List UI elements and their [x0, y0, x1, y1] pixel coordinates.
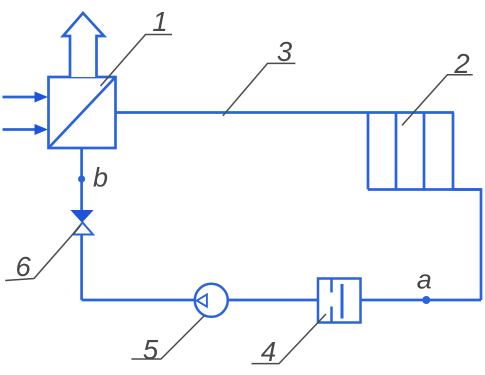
- heat exchanger U1 box: [49, 77, 116, 148]
- svg-text:b: b: [93, 163, 108, 193]
- valve 6 (throttle): [72, 211, 94, 235]
- leader line for label 4: [252, 314, 327, 364]
- dryer 4 left split vertical: [330, 279, 333, 293]
- wire: right vertical drop from radiator 2 bottom to node a: [453, 190, 481, 301]
- wire: top pipe 3 from unit 1 to radiator 2: [114, 111, 454, 114]
- wire: bottom pipe from right corner to dryer 4: [361, 299, 482, 302]
- leader line for label 5: [131, 316, 204, 359]
- node a: [422, 296, 430, 304]
- leader line for label 1: [101, 35, 173, 87]
- svg-text:5: 5: [143, 334, 159, 365]
- leader line for label 2: [402, 75, 473, 126]
- pump 5 inner flow triangle: [197, 294, 207, 306]
- wire: left vertical from unit 1 bottom to valve 6: [80, 148, 83, 212]
- svg-text:2: 2: [453, 48, 469, 79]
- wire: bottom pipe from pump 5 to left corner: [82, 299, 196, 302]
- air inlet arrow top (into unit 1): [3, 92, 49, 103]
- air inlet arrow bottom (into unit 1): [3, 124, 49, 135]
- svg-text:a: a: [417, 265, 432, 295]
- pump 5 circle: [195, 284, 228, 317]
- hollow up arrow out of unit 1: [63, 13, 104, 77]
- node b: [78, 175, 85, 182]
- svg-text:3: 3: [277, 36, 293, 67]
- wire: left vertical from valve 6 up corner: [80, 234, 83, 300]
- dryer 4 right inner vertical: [341, 284, 344, 319]
- leader line for label 3: [223, 63, 296, 115]
- dryer 4 body: [318, 279, 361, 323]
- leader line for label 6: [5, 226, 80, 281]
- svg-text:4: 4: [261, 336, 276, 367]
- radiator 2 fins: [368, 113, 481, 190]
- heat exchanger U1 diagonal: [49, 77, 116, 148]
- svg-text:1: 1: [152, 6, 167, 37]
- svg-text:6: 6: [16, 251, 32, 282]
- wire: bottom pipe from dryer 4 to pump 5: [227, 299, 318, 302]
